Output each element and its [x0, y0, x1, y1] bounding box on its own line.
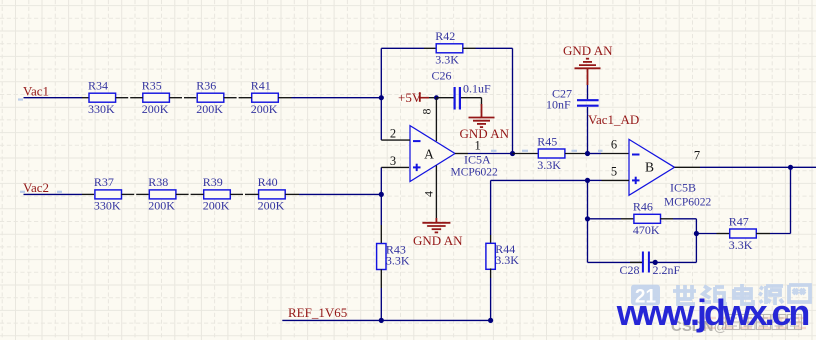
- svg-text:10nF: 10nF: [546, 98, 571, 112]
- svg-text:3.3K: 3.3K: [386, 253, 410, 267]
- svg-text:R35: R35: [142, 79, 162, 93]
- svg-text:R42: R42: [435, 29, 455, 43]
- svg-text:200K: 200K: [203, 199, 230, 213]
- svg-text:R41: R41: [251, 79, 271, 93]
- svg-text:3.3K: 3.3K: [435, 53, 459, 67]
- svg-text:200K: 200K: [251, 102, 278, 116]
- svg-text:IC5B: IC5B: [670, 181, 696, 195]
- svg-text:C26: C26: [432, 68, 452, 82]
- svg-text:C28: C28: [620, 263, 640, 277]
- svg-text:3: 3: [390, 154, 396, 168]
- svg-text:3.3K: 3.3K: [495, 253, 519, 267]
- svg-text:5: 5: [611, 164, 617, 178]
- svg-text:R38: R38: [148, 175, 168, 189]
- svg-text:Vac2: Vac2: [23, 180, 49, 195]
- svg-text:200K: 200K: [196, 102, 223, 116]
- svg-text:330K: 330K: [94, 199, 121, 213]
- svg-text:Vac1_AD: Vac1_AD: [588, 112, 639, 127]
- svg-text:+5V: +5V: [398, 90, 422, 105]
- svg-text:GND AN: GND AN: [563, 43, 613, 58]
- svg-text:GND AN: GND AN: [460, 126, 510, 141]
- svg-text:0.1uF: 0.1uF: [463, 82, 491, 96]
- svg-text:R47: R47: [729, 214, 749, 228]
- svg-text:2.2nF: 2.2nF: [653, 263, 681, 277]
- svg-text:4: 4: [422, 191, 436, 197]
- svg-text:Vac1: Vac1: [23, 84, 49, 99]
- svg-text:R36: R36: [196, 79, 216, 93]
- svg-text:R39: R39: [203, 175, 223, 189]
- svg-text:GND AN: GND AN: [413, 233, 463, 248]
- svg-text:8: 8: [420, 109, 434, 115]
- svg-text:www.jdwx.cn: www.jdwx.cn: [616, 292, 809, 333]
- svg-text:MCP6022: MCP6022: [664, 196, 712, 208]
- svg-text:2: 2: [390, 126, 396, 140]
- svg-text:6: 6: [611, 137, 617, 151]
- svg-text:3.3K: 3.3K: [729, 238, 753, 252]
- svg-text:200K: 200K: [258, 199, 285, 213]
- svg-text:3.3K: 3.3K: [537, 158, 561, 172]
- svg-text:R46: R46: [633, 200, 653, 214]
- svg-text:330K: 330K: [88, 102, 115, 116]
- svg-text:A: A: [424, 147, 434, 162]
- svg-text:1: 1: [474, 138, 480, 152]
- svg-text:R40: R40: [258, 175, 278, 189]
- svg-text:470K: 470K: [633, 223, 660, 237]
- svg-text:200K: 200K: [142, 102, 169, 116]
- svg-text:MCP6022: MCP6022: [451, 167, 499, 179]
- svg-text:REF_1V65: REF_1V65: [288, 305, 347, 320]
- svg-text:R37: R37: [94, 175, 114, 189]
- svg-text:R34: R34: [88, 79, 108, 93]
- svg-text:200K: 200K: [148, 199, 175, 213]
- svg-text:R45: R45: [537, 134, 557, 148]
- svg-text:7: 7: [694, 149, 700, 163]
- svg-text:IC5A: IC5A: [464, 152, 491, 166]
- svg-text:B: B: [645, 160, 654, 175]
